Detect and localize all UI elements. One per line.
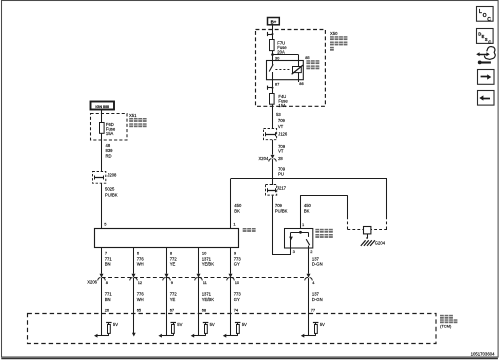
svg-text:839: 839 — [106, 148, 114, 153]
svg-text:771: 771 — [105, 256, 113, 261]
svg-text:PU/BK: PU/BK — [275, 208, 288, 213]
svg-text:1371: 1371 — [202, 292, 212, 297]
svg-text:WH: WH — [137, 297, 144, 302]
label F7U Fuse 20A — [277, 41, 287, 55]
svg-text:1371: 1371 — [202, 256, 212, 261]
TCM pin 74 input with 5V pull-up — [223, 278, 247, 338]
label F4U Fuse 15A — [278, 94, 288, 108]
label TCM pin 65 — [137, 307, 142, 312]
toolbar DESC button — [477, 29, 494, 45]
label 48 839 RD — [106, 143, 114, 159]
IGN I/II/III power label — [91, 102, 115, 110]
wire 137 D-GN upper — [308, 248, 310, 274]
svg-text:B+: B+ — [271, 20, 277, 25]
relay pin labels 30 85 87 86 — [275, 55, 311, 86]
label TCM name — [440, 315, 457, 329]
svg-text:X50: X50 — [330, 31, 338, 36]
svg-text:J126: J126 — [278, 131, 288, 136]
svg-text:26: 26 — [105, 307, 110, 312]
connector X206 pin 4 — [305, 274, 316, 285]
TCM pin 26 input with 5V pull-up — [94, 278, 118, 338]
ground terminal box — [364, 227, 371, 239]
svg-text:D-GN: D-GN — [312, 261, 323, 266]
svg-text:YE: YE — [170, 297, 176, 302]
svg-text:YE/BK: YE/BK — [202, 297, 215, 302]
switch internal contacts — [289, 231, 310, 248]
svg-text:WH: WH — [137, 262, 144, 267]
svg-text:C: C — [487, 17, 491, 23]
label J217 — [277, 185, 287, 190]
svg-text:771: 771 — [105, 292, 113, 297]
label X206 — [87, 279, 97, 284]
fuse F4U — [270, 94, 275, 105]
TCM pin 77 input with 5V pull-up — [301, 278, 325, 338]
svg-text:15A: 15A — [278, 103, 286, 108]
svg-text:773: 773 — [234, 292, 242, 297]
label TCM pin 67 — [170, 307, 175, 312]
wire shifter pin 8 down to X206 — [166, 248, 168, 274]
wire relay 87 to fuse F4U — [272, 79, 274, 94]
label TCM pin 77 — [311, 307, 316, 312]
relay actuation dashed link — [275, 69, 291, 71]
wire 839 RD — [101, 133, 103, 171]
dashed ground links to G204 — [347, 217, 387, 230]
document number — [471, 352, 496, 357]
label F6D Fuse 15A — [106, 122, 116, 136]
wire shifter pin 10 down to X206 — [198, 248, 200, 274]
wire shifter pin 6 down to X206 — [133, 248, 135, 274]
label pin 6 circuit 776 WH upper — [137, 250, 145, 266]
wire shifter pin1 450 BK up and right — [231, 179, 388, 229]
label 450 BK right — [304, 203, 312, 213]
ground G204 symbol — [361, 240, 375, 246]
svg-text:67: 67 — [170, 307, 175, 312]
svg-text:G204: G204 — [375, 240, 386, 245]
wire 709 PU/BK to switch pin 3 — [272, 196, 291, 255]
splice J126 — [264, 129, 277, 140]
svg-text:BN: BN — [105, 297, 111, 302]
connector X206 pin 9 — [163, 274, 174, 285]
label pin 7 circuit 771 BN upper — [105, 250, 113, 266]
label circuit 1371 YE/BK lower — [199, 278, 215, 302]
svg-text:450: 450 — [234, 203, 242, 208]
svg-text:X206: X206 — [87, 279, 97, 284]
svg-text:O: O — [483, 13, 487, 19]
wire 53 709 VT — [272, 105, 274, 129]
svg-text:12: 12 — [138, 280, 143, 285]
toolbar next-arrow button — [478, 70, 495, 85]
wire IGN to fuse F6D — [101, 110, 103, 122]
svg-text:5V: 5V — [177, 322, 182, 327]
wire 5025 PU/BK — [101, 183, 103, 228]
svg-text:C: C — [488, 40, 491, 45]
svg-text:5025: 5025 — [105, 186, 115, 191]
relay coil — [292, 65, 304, 74]
label X50 underhood fuse block — [330, 31, 347, 51]
svg-text:450: 450 — [304, 203, 312, 208]
svg-text:1051703604: 1051703604 — [471, 352, 496, 357]
label J126 — [278, 131, 288, 136]
svg-text:773: 773 — [234, 256, 242, 261]
svg-text:(TCM): (TCM) — [440, 323, 452, 328]
svg-text:X204: X204 — [259, 156, 269, 161]
label switch name CJK — [315, 229, 332, 238]
svg-text:53: 53 — [276, 112, 281, 117]
TCM pin 68 input with 5V pull-up — [191, 278, 215, 338]
svg-text:BK: BK — [234, 208, 240, 213]
svg-text:10: 10 — [202, 250, 207, 255]
connector X206 pin 10 — [227, 274, 240, 285]
svg-text:VT: VT — [278, 149, 284, 154]
connector X206 pin 8 — [98, 274, 109, 285]
label circuit 773 GY lower — [231, 278, 242, 302]
label 709 VT lower — [278, 144, 286, 154]
wire switch pin1 450 BK — [300, 195, 347, 228]
svg-text:RD: RD — [106, 154, 112, 159]
wire 709 VT lower — [272, 140, 274, 155]
label 53 709 VT — [276, 112, 285, 129]
splice J217 — [266, 185, 277, 196]
svg-text:15A: 15A — [106, 131, 114, 136]
svg-text:776: 776 — [137, 256, 145, 261]
label relay name CJK — [306, 60, 319, 69]
label pin 8 circuit 772 YE upper — [170, 250, 178, 266]
label pin 10 circuit 1371 YE/BK upper — [202, 250, 215, 266]
connector X204 pin 28 — [259, 155, 284, 162]
svg-text:5V: 5V — [113, 322, 118, 327]
svg-text:77: 77 — [311, 307, 316, 312]
fuse F7U — [270, 40, 275, 51]
TCM dashed box — [28, 314, 437, 344]
relay switch blade — [269, 60, 273, 79]
svg-text:VT: VT — [278, 124, 284, 129]
switch pin labels 1 3 2 — [293, 222, 314, 254]
label 709 PU/BK — [275, 203, 288, 213]
svg-text:74: 74 — [234, 307, 239, 312]
terminal above F4U — [268, 86, 274, 90]
TCM pin 65 input arrow — [132, 278, 136, 336]
svg-text:BN: BN — [105, 262, 111, 267]
wire B+ to fuse F7U — [272, 25, 274, 40]
relay coil pins — [298, 60, 300, 82]
toolbar hand-tools icon — [476, 47, 495, 65]
label G204 — [375, 240, 386, 245]
dashed connector line X206 — [102, 277, 308, 279]
svg-text:772: 772 — [170, 256, 178, 261]
svg-text:IGN II/III: IGN II/III — [95, 105, 109, 109]
svg-text:D-GN: D-GN — [312, 297, 323, 302]
svg-text:85: 85 — [305, 55, 310, 60]
label TCM pin 74 — [234, 307, 239, 312]
svg-text:709: 709 — [275, 203, 283, 208]
svg-text:48: 48 — [106, 143, 111, 148]
wire shifter pin 9 down to X206 — [230, 248, 232, 274]
wire 709 PU — [272, 159, 274, 185]
TCM pin 67 input with 5V pull-up — [158, 278, 182, 338]
relay U-signal box — [267, 61, 304, 80]
svg-text:20A: 20A — [277, 50, 285, 55]
svg-text:68: 68 — [202, 307, 207, 312]
fuse F6D — [100, 123, 105, 134]
svg-text:5V: 5V — [320, 322, 325, 327]
svg-text:5V: 5V — [210, 322, 215, 327]
svg-text:86: 86 — [299, 81, 304, 86]
terminal at X50 entry — [268, 32, 274, 36]
svg-text:X51: X51 — [129, 113, 137, 118]
B+ power label — [268, 18, 280, 25]
wire shifter pin 7 down to X206 — [101, 248, 103, 274]
svg-text:30: 30 — [275, 55, 280, 60]
svg-text:776: 776 — [137, 292, 145, 297]
toolbar LOC button — [477, 7, 494, 23]
label TCM pin 68 — [202, 307, 207, 312]
svg-text:BK: BK — [304, 208, 310, 213]
svg-text:PU: PU — [278, 172, 284, 177]
svg-text:5V: 5V — [242, 322, 247, 327]
svg-text:GY: GY — [234, 262, 240, 267]
svg-text:137: 137 — [312, 292, 320, 297]
fuel economy mode switch box — [285, 229, 313, 249]
label 709 PU — [278, 167, 286, 177]
wire fuse to relay pins 30/85 — [271, 51, 298, 60]
svg-text:PU/BK: PU/BK — [105, 192, 118, 197]
splice J208 — [93, 172, 106, 184]
svg-text:L: L — [479, 9, 482, 15]
label shifter CJK — [243, 228, 256, 232]
underhood fuse box X50 dashed outline — [256, 30, 326, 107]
label J208 — [107, 172, 117, 177]
label circuit 772 YE lower — [167, 278, 178, 302]
svg-text:GY: GY — [234, 297, 240, 302]
svg-text:YE/BK: YE/BK — [202, 262, 215, 267]
svg-text:28: 28 — [278, 156, 283, 161]
svg-text:772: 772 — [170, 292, 178, 297]
label TCM pin 26 — [105, 307, 110, 312]
shifter top pin labels 5 1 — [104, 222, 236, 227]
label pin 9 circuit 773 GY upper — [234, 250, 242, 266]
shifter box — [95, 229, 239, 248]
fuse box X51 dashed outline — [91, 114, 128, 141]
label 5025 PU/BK — [105, 186, 118, 197]
connector X206 pin 11 — [195, 274, 208, 285]
svg-text:J217: J217 — [277, 185, 287, 190]
label 137 D-GN upper — [312, 257, 323, 267]
toolbar back-arrow button — [478, 91, 495, 106]
label 450 BK left — [234, 203, 242, 213]
svg-text:709: 709 — [278, 118, 286, 123]
svg-text:87: 87 — [275, 81, 280, 86]
svg-text:65: 65 — [137, 307, 142, 312]
label circuit 771 BN lower — [102, 278, 113, 302]
label circuit 776 WH lower — [134, 278, 145, 302]
svg-text:J208: J208 — [107, 172, 117, 177]
svg-text:YE: YE — [170, 262, 176, 267]
label X51 instrument panel fuse block — [129, 113, 147, 127]
label 137 D-GN lower — [312, 292, 323, 302]
svg-text:10: 10 — [235, 280, 240, 285]
connector X206 pin 12 — [130, 274, 143, 285]
